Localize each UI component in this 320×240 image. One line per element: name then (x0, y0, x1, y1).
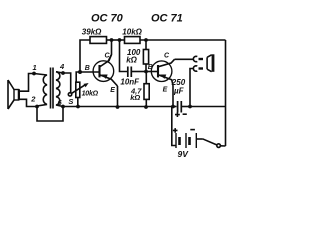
transistor T1 base bar (98, 65, 100, 77)
wire speaker bottom to transformer terminal 2 (20, 99, 38, 106)
potentiometer wiper arrow (71, 84, 86, 93)
svg-text:10kΩ: 10kΩ (122, 28, 142, 37)
label 6 (58, 98, 63, 107)
resistor R2 10k body (125, 37, 141, 44)
wire 4.7k top stub (145, 72, 147, 84)
svg-text:E: E (163, 86, 168, 93)
label 10nF (120, 78, 140, 87)
transistor T2 base bar (157, 65, 159, 77)
label battery minus (190, 129, 195, 131)
resistor R3 100k body (143, 50, 148, 65)
svg-text:OC 71: OC 71 (151, 13, 183, 25)
wire 39k left vertical (80, 40, 90, 72)
wire 4.7k bottom stub (145, 99, 147, 107)
label S (68, 97, 73, 106)
label 39kOhm (82, 28, 102, 37)
node emitter T1 ground (116, 105, 120, 109)
wire 100k bottom stub (145, 64, 147, 72)
label C T1 (105, 53, 111, 60)
wire cap node to right rail (190, 106, 226, 108)
potentiometer wiper terminal circle S (68, 93, 71, 96)
battery 9V plates (176, 133, 196, 148)
label OC70 (91, 13, 124, 25)
svg-text:kΩ: kΩ (130, 93, 140, 102)
transistor T2 collector inner (158, 59, 175, 67)
wire 10nF vertical drop (120, 40, 128, 72)
capacitor C1 10nF plates (128, 67, 132, 78)
transistor T1 OC70 circle (93, 61, 114, 82)
label C T2 (164, 53, 170, 60)
earphone F (207, 54, 214, 72)
wire 100k top stub (145, 40, 147, 50)
label cap plus (175, 112, 180, 117)
node 10nF tap (118, 38, 122, 42)
wire terminal4 to potentiometer wiper (63, 73, 71, 93)
jack plug upper (199, 58, 204, 60)
svg-text:1: 1 (33, 63, 37, 72)
transformer Tr secondary winding (56, 72, 63, 107)
wire collector T2 to jack (175, 58, 194, 60)
svg-text:E: E (110, 87, 115, 94)
label E T2 (163, 86, 168, 93)
wire pot top to base node (76, 72, 80, 82)
node emitter T2 junction (171, 105, 175, 109)
wire 10k right to supply rail (140, 39, 226, 41)
svg-text:2: 2 (30, 95, 36, 104)
wire rail to 10k (120, 39, 125, 41)
node terminal 4 (61, 71, 65, 75)
label 100kOhm (126, 48, 141, 64)
transistor T2 emitter drop (172, 86, 174, 108)
label 4 (59, 62, 65, 71)
svg-text:S: S (68, 97, 73, 106)
svg-text:9V: 9V (178, 149, 190, 159)
svg-text:10kΩ: 10kΩ (82, 90, 99, 97)
capacitor C2 250uF plates (178, 101, 182, 113)
label 9V (178, 149, 190, 159)
wire collector T1 vertical (108, 40, 111, 61)
battery lead right (196, 138, 202, 140)
speaker LS (8, 80, 19, 109)
wire terminal2 to terminal6 loop (37, 107, 63, 122)
label cap minus (183, 113, 187, 115)
transistor T1 collector inner (100, 55, 112, 67)
svg-text:µF: µF (173, 86, 185, 95)
transformer Tr core (51, 68, 54, 109)
wire switch to rail (220, 145, 225, 147)
transistor T1 base wire (80, 71, 100, 73)
wire 10nF right (131, 71, 146, 73)
node cap right (188, 105, 192, 109)
svg-text:4: 4 (59, 62, 65, 71)
svg-text:kΩ: kΩ (126, 56, 137, 65)
wire lower jack from cap node (190, 69, 193, 108)
label 4,7kOhm (130, 86, 142, 102)
node collector T1 rail (110, 38, 114, 42)
node terminal 1 (32, 72, 36, 76)
label battery plus (173, 128, 178, 133)
node base T1 (78, 70, 82, 74)
wire node to 10nF vertical (112, 39, 120, 41)
node terminal 6 (61, 105, 65, 109)
svg-text:39kΩ: 39kΩ (82, 28, 102, 37)
wire pot bottom to ground rail (77, 98, 79, 107)
resistor R4 4.7k body (144, 84, 149, 100)
node base T2 (144, 70, 148, 74)
jack socket lower (193, 66, 197, 71)
switch blade (203, 139, 217, 145)
label OC71 (151, 13, 183, 25)
node terminal 2 (35, 105, 39, 109)
label E T1 (110, 87, 115, 94)
label 250uF (171, 78, 186, 95)
right rail (225, 40, 227, 146)
wire speaker top to transformer terminal 1 (20, 74, 35, 92)
jack plug lower (199, 67, 204, 69)
node pot bottom (76, 105, 80, 109)
label B T1 (85, 65, 90, 72)
potentiometer P 10k body (76, 82, 80, 97)
label B T2 (148, 64, 153, 71)
transistor T2 emitter arrow (160, 75, 166, 79)
transformer Tr primary winding (34, 74, 47, 107)
jack socket upper (193, 56, 197, 61)
node 4.7k ground (144, 105, 148, 109)
wire 39k right (107, 39, 112, 41)
label 1 (33, 63, 37, 72)
resistor R1 39k body (90, 37, 107, 44)
ground rail bottom (63, 106, 173, 108)
svg-text:OC 70: OC 70 (91, 13, 124, 25)
wire cap left (173, 106, 177, 108)
transistor T2 emitter inner (158, 75, 173, 86)
svg-text:10nF: 10nF (120, 78, 140, 87)
transistor T2 OC71 circle (151, 61, 172, 82)
switch contact circle (217, 144, 221, 148)
node supply tap 100k (144, 38, 148, 42)
transistor T1 emitter inner (100, 75, 118, 86)
transistor T1 emitter arrow (101, 75, 107, 79)
transistor T2 base wire (146, 71, 158, 73)
label 2 (30, 95, 36, 104)
label 10kOhm top (122, 28, 142, 37)
transistor T1 emitter drop (117, 86, 119, 107)
battery 9V lead left (172, 107, 176, 146)
svg-text:B: B (148, 64, 153, 71)
svg-text:C: C (164, 53, 170, 60)
label 10kOhm pot (82, 90, 99, 97)
wire cap right (181, 106, 190, 108)
svg-text:B: B (85, 65, 90, 72)
